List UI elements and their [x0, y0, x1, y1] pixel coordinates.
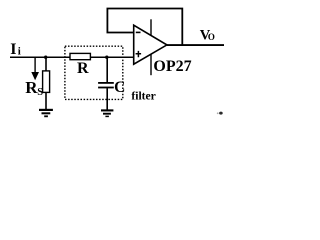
svg-text:C: C: [114, 79, 125, 96]
svg-text:OP27: OP27: [153, 58, 191, 75]
svg-text:filter: filter: [131, 89, 156, 103]
svg-text:R: R: [77, 60, 89, 77]
